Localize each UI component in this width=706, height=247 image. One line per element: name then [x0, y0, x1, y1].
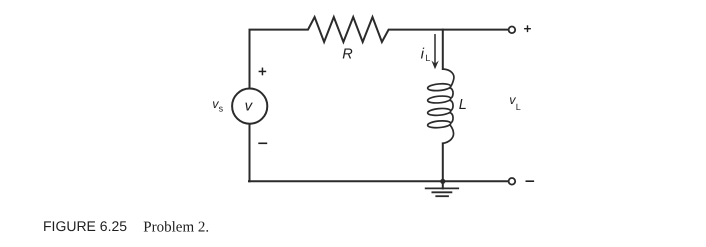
svg-text:R: R — [342, 47, 353, 63]
svg-text:L: L — [459, 97, 467, 113]
svg-text:i: i — [421, 45, 425, 62]
svg-text:L: L — [516, 102, 521, 112]
svg-text:s: s — [219, 103, 224, 113]
svg-text:FIGURE 6.25: FIGURE 6.25 — [43, 218, 127, 234]
svg-text:L: L — [425, 53, 430, 63]
svg-text:Problem 2.: Problem 2. — [143, 220, 209, 236]
